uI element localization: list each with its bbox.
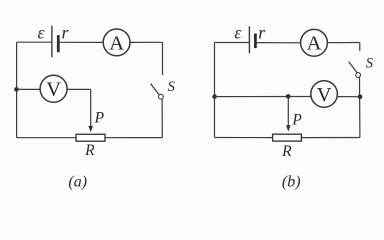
wire: (b) top-right segment (ammeter to top-right corner) xyxy=(327,42,359,44)
wire: (a) left vertical segment xyxy=(16,42,18,138)
svg-text:S: S xyxy=(366,56,374,72)
label P (slider designator, circuit a) xyxy=(94,110,105,127)
junction node (b): right end of voltmeter branch on right wire xyxy=(358,95,363,100)
wire: (b) right vertical stub above switch xyxy=(359,43,361,52)
svg-text:A: A xyxy=(307,33,322,55)
wire: (b) bottom-right segment (corner to rheostat right end) xyxy=(301,137,360,139)
svg-text:P: P xyxy=(94,110,105,127)
svg-text:r: r xyxy=(61,23,69,43)
svg-text:V: V xyxy=(317,84,332,106)
svg-text:V: V xyxy=(46,79,61,101)
wire: (b) top middle segment (battery to ammeter) xyxy=(255,42,300,44)
rheostat R (circuit a): sliding contact arrow P (from voltmeter branch down onto body) xyxy=(88,89,93,132)
junction node (a): voltmeter tap on left wire xyxy=(14,87,19,92)
junction node (b): slider tap node on middle branch xyxy=(286,94,291,99)
wire: (a) top middle segment (battery to ammeter) xyxy=(58,41,103,43)
ammeter A (circuit b) xyxy=(301,29,328,56)
rheostat R (circuit b): sliding contact arrow P (from middle branch down onto body) xyxy=(286,97,291,132)
wire: (b) middle branch segment (slider node to voltmeter) xyxy=(288,96,311,98)
wire: (b) right vertical segment (switch down to bottom-right corner) xyxy=(359,77,361,137)
label S (switch designator, circuit a) xyxy=(168,79,176,95)
wire: (a) top-right segment (ammeter to top-right corner) xyxy=(130,41,163,43)
label (a) subfigure caption xyxy=(68,173,87,190)
wire: (b) middle branch right segment (voltmeter to right wire) xyxy=(337,96,360,98)
svg-text:(b): (b) xyxy=(282,173,301,190)
switch S (circuit a): pivot contact circle xyxy=(159,94,164,99)
label ε (EMF value, circuit b) xyxy=(234,23,242,43)
battery cell (circuit a): long positive plate xyxy=(51,26,53,58)
wire: (b) left vertical segment xyxy=(214,43,216,138)
switch S (circuit b): open lever blade xyxy=(349,62,357,73)
svg-text:ε: ε xyxy=(234,23,242,43)
svg-text:S: S xyxy=(168,79,176,95)
wire: (a) right vertical lower segment (switch to bottom-right corner) xyxy=(161,99,163,138)
switch S (circuit b): pivot contact circle xyxy=(356,73,361,78)
wire: (a) bottom-right segment (corner to rheostat right end) xyxy=(105,137,162,139)
wire: (a) voltmeter left lead xyxy=(17,88,41,90)
wire: (a) bottom-left segment (rheostat left end to bottom-left corner) xyxy=(17,137,76,139)
label (b) subfigure caption xyxy=(282,173,301,190)
voltmeter V (circuit b) xyxy=(311,81,338,108)
ammeter A (circuit a) xyxy=(103,29,130,56)
svg-text:ε: ε xyxy=(37,22,45,42)
label ε (EMF value, circuit a) xyxy=(37,22,45,42)
junction node (b): left end of voltmeter branch on left wire xyxy=(212,94,217,99)
switch S (circuit a): open lever blade xyxy=(151,84,159,95)
wire: (a) right vertical upper segment (corner down to switch gap) xyxy=(162,42,164,75)
wire: (b) bottom-left segment (rheostat left end to bottom-left corner) xyxy=(215,137,273,139)
svg-text:A: A xyxy=(109,32,124,54)
battery cell (circuit b): long positive plate xyxy=(248,26,250,53)
label R (rheostat designator, circuit a) xyxy=(84,142,95,159)
label R (rheostat designator, circuit b) xyxy=(281,143,292,160)
svg-text:R: R xyxy=(84,142,95,159)
battery cell (circuit b): short thick negative plate xyxy=(254,34,257,49)
svg-text:R: R xyxy=(281,143,292,160)
voltmeter V (circuit a) xyxy=(40,75,67,102)
wire: (b) middle branch left segment (left wire to slider node) xyxy=(215,96,289,98)
label r (internal resistance value, circuit b) xyxy=(258,23,266,43)
rheostat R (circuit b): resistor body xyxy=(273,134,302,141)
svg-text:(a): (a) xyxy=(68,173,87,190)
wire: (a) top-left horizontal segment (battery to left corner) xyxy=(17,41,52,43)
wire: (a) voltmeter right lead to corner above slider xyxy=(67,88,91,90)
label r (internal resistance value, circuit a) xyxy=(61,23,69,43)
label P (slider designator, circuit b) xyxy=(291,112,302,129)
wire: (b) top-left horizontal segment (left corner to battery) xyxy=(215,42,249,44)
svg-text:r: r xyxy=(258,23,266,43)
label S (switch designator, circuit b) xyxy=(366,56,374,72)
rheostat R (circuit a): resistor body xyxy=(76,134,105,141)
battery cell (circuit a): short thick negative plate xyxy=(57,35,60,52)
svg-text:P: P xyxy=(291,112,302,129)
